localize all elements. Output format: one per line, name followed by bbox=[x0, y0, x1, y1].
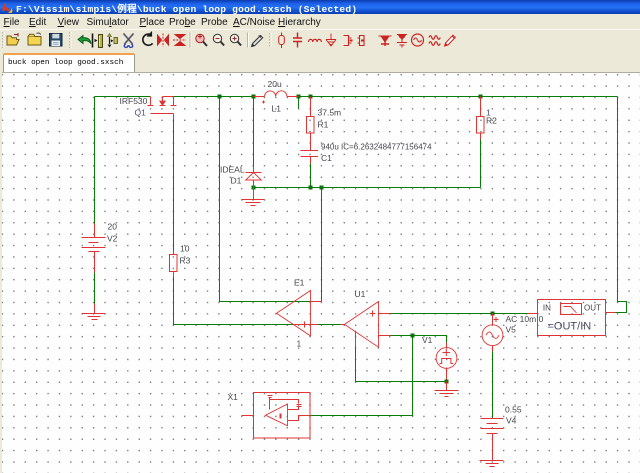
svg-text:U1: U1 bbox=[355, 289, 366, 299]
wire U1 ref pin down bbox=[355, 348, 357, 382]
diode D1 triangle bbox=[246, 173, 262, 181]
toolbar separator 2 bbox=[190, 33, 191, 48]
toolbar icon zoom-area bbox=[196, 34, 207, 46]
svg-text:=OUT/IN: =OUT/IN bbox=[548, 321, 592, 333]
diode D1 leads bbox=[246, 167, 262, 188]
tab bar bbox=[0, 51, 640, 72]
toolbar icon place ground bbox=[326, 34, 336, 47]
svg-text:R2: R2 bbox=[486, 116, 497, 126]
U1 input leads bbox=[341, 311, 391, 348]
toolbar icon mirror-x bbox=[158, 34, 169, 47]
menu bar bbox=[0, 14, 640, 29]
toolbar icon open bbox=[7, 33, 19, 45]
svg-text:1: 1 bbox=[297, 339, 302, 349]
ground under D1 bbox=[242, 188, 265, 206]
toolbar icon new-folder bbox=[28, 33, 41, 45]
wire U1 minus input to V1 bbox=[391, 336, 447, 343]
svg-text:20: 20 bbox=[108, 222, 118, 232]
toolbar grip 3 bbox=[270, 33, 272, 48]
subcircuit X1 box bbox=[242, 393, 311, 439]
svg-text:R1: R1 bbox=[318, 120, 329, 130]
toolbar icon place capacitor bbox=[293, 33, 302, 48]
svg-text:AC 10m 0: AC 10m 0 bbox=[506, 314, 544, 324]
window title bar bbox=[0, 0, 640, 14]
capacitor C1 bbox=[301, 151, 319, 164]
V1 top lead bbox=[446, 343, 448, 380]
wire U1 ref to V1 minus bbox=[356, 381, 447, 383]
wire top rail right (L1 right to corner) bbox=[299, 96, 618, 98]
wire E1 minus to ground rail bbox=[321, 188, 323, 302]
toolbar icon place probe2 bbox=[358, 36, 365, 46]
svg-text:C1: C1 bbox=[321, 153, 332, 163]
junction node D1 top bbox=[252, 95, 256, 99]
svg-text:10: 10 bbox=[180, 244, 190, 254]
svg-text:V4: V4 bbox=[506, 415, 517, 425]
toolbar grip 2 bbox=[70, 32, 72, 48]
inductor L1 coil bbox=[265, 91, 288, 97]
wire C1 bottom bbox=[310, 164, 312, 188]
junction node switch x219 bbox=[218, 95, 222, 99]
junction node V6 plus bbox=[491, 312, 495, 316]
op-amp U1 triangle bbox=[345, 302, 379, 348]
junction node R2 top bbox=[479, 95, 483, 99]
toolbar icon place zener bbox=[397, 35, 407, 48]
svg-text:37.5m: 37.5m bbox=[318, 108, 342, 118]
svg-text:IDEAL: IDEAL bbox=[220, 164, 245, 174]
wire ground rail bbox=[254, 187, 481, 189]
svg-text:0.55: 0.55 bbox=[505, 404, 522, 414]
junction node L1 right bbox=[297, 95, 301, 99]
wire X1 output up to U1 minus node bbox=[311, 336, 413, 416]
E1 minus input lead bbox=[311, 301, 322, 303]
battery V4 bbox=[481, 418, 504, 461]
resistor R1 bbox=[307, 97, 315, 151]
toolbar icon undo bbox=[78, 36, 91, 44]
junction node E1 minus rail bbox=[320, 186, 324, 190]
wire D1 cathode column bbox=[253, 97, 255, 167]
toolbar icon place resistor bbox=[279, 33, 285, 49]
ground under V4 bbox=[480, 461, 504, 467]
wire V2 to ground bbox=[94, 273, 96, 304]
svg-text:V5: V5 bbox=[506, 324, 517, 334]
transistor Q1 arrow bbox=[160, 101, 165, 105]
toolbar icon zoom-in bbox=[230, 34, 241, 45]
probe box leads bbox=[528, 313, 616, 314]
wire R2 bottom drop bbox=[480, 140, 482, 188]
op-amp E1 triangle bbox=[277, 291, 311, 336]
toolbar icon place wave bbox=[429, 36, 440, 46]
svg-text:940u IC=6.2632484777156474: 940u IC=6.2632484777156474 bbox=[321, 142, 432, 151]
svg-text:X1: X1 bbox=[228, 392, 239, 402]
svg-text:V1: V1 bbox=[422, 335, 433, 345]
svg-text:R3: R3 bbox=[180, 256, 191, 266]
probe box filter curve bbox=[564, 307, 577, 314]
wire stub at L1 right node bbox=[298, 97, 300, 109]
V6 leads bbox=[493, 314, 499, 352]
junction node R1 top bbox=[309, 95, 313, 99]
junction node D1 anode rail bbox=[252, 186, 256, 190]
transistor Q1 MOSFET leads bbox=[148, 97, 177, 120]
wire top rail mid (Q1 drain to D1 node) bbox=[174, 96, 254, 98]
wire U1 plus input to V6 node bbox=[391, 313, 528, 315]
junction node U1 minus bbox=[411, 334, 415, 338]
toolbar icon probe pencil bbox=[445, 35, 456, 46]
toolbar icon zoom-out bbox=[213, 34, 224, 45]
junction node V1 minus bbox=[445, 380, 449, 384]
toolbar icon place probe1 bbox=[344, 36, 353, 46]
svg-text:Q1: Q1 bbox=[135, 107, 147, 117]
toolbar icon fit-selection bbox=[108, 34, 118, 48]
subcircuit X1 inner triangle bbox=[266, 404, 288, 426]
toolbar icon redo-rotate bbox=[143, 32, 153, 46]
toolbar icon fit-page bbox=[93, 34, 103, 48]
toolbar icon place ac-source bbox=[412, 34, 424, 46]
wire R3 to E1 plus bbox=[174, 277, 293, 325]
titlebar app icon bbox=[2, 2, 12, 13]
battery V2 bbox=[82, 224, 106, 273]
svg-text:OUT: OUT bbox=[584, 304, 601, 313]
svg-text:L1: L1 bbox=[272, 104, 282, 114]
svg-text:D1: D1 bbox=[231, 175, 242, 185]
resistor R3 bbox=[170, 251, 178, 277]
E1 plus input lead bbox=[293, 322, 318, 328]
inductor L1 leads bbox=[254, 97, 299, 104]
wire V2 column bbox=[94, 97, 96, 224]
wire switch-node drop x=219 bbox=[220, 97, 322, 302]
resistor R2 bbox=[477, 97, 485, 140]
AC source V6 bbox=[482, 325, 503, 346]
wire top rail left (V2+ to Q1 source) bbox=[95, 96, 151, 98]
toolbar icon place diode bbox=[379, 36, 392, 46]
junction node C1 bottom rail bbox=[309, 186, 313, 190]
wire Q1 gate to R3 bbox=[173, 120, 175, 251]
svg-text:20u: 20u bbox=[268, 79, 282, 89]
toolbar separator 3 bbox=[248, 33, 249, 48]
toolbar strip bbox=[0, 29, 640, 52]
wire right drop to OUT pin bbox=[616, 97, 627, 313]
probe box OUT/IN bbox=[538, 300, 606, 336]
svg-text:E1: E1 bbox=[294, 278, 305, 288]
svg-text:IN: IN bbox=[543, 304, 551, 313]
toolbar icon save floppy bbox=[50, 34, 63, 47]
toolbar grip left bbox=[3, 32, 5, 48]
pulse source V1 bbox=[436, 348, 457, 369]
ground under V2 bbox=[82, 304, 106, 320]
wire E1 plus to U1 output bbox=[318, 324, 341, 326]
svg-text:IRF530: IRF530 bbox=[120, 96, 148, 106]
toolbar icon cut scissors bbox=[124, 34, 134, 48]
wire V6 to V4 bbox=[492, 352, 494, 418]
svg-text:V2: V2 bbox=[107, 234, 118, 244]
toolbar icon place inductor bbox=[309, 39, 322, 42]
ground under V1 bbox=[435, 382, 459, 397]
toolbar icon wire pencil bbox=[252, 35, 263, 46]
toolbar icon mirror-y bbox=[173, 35, 186, 46]
